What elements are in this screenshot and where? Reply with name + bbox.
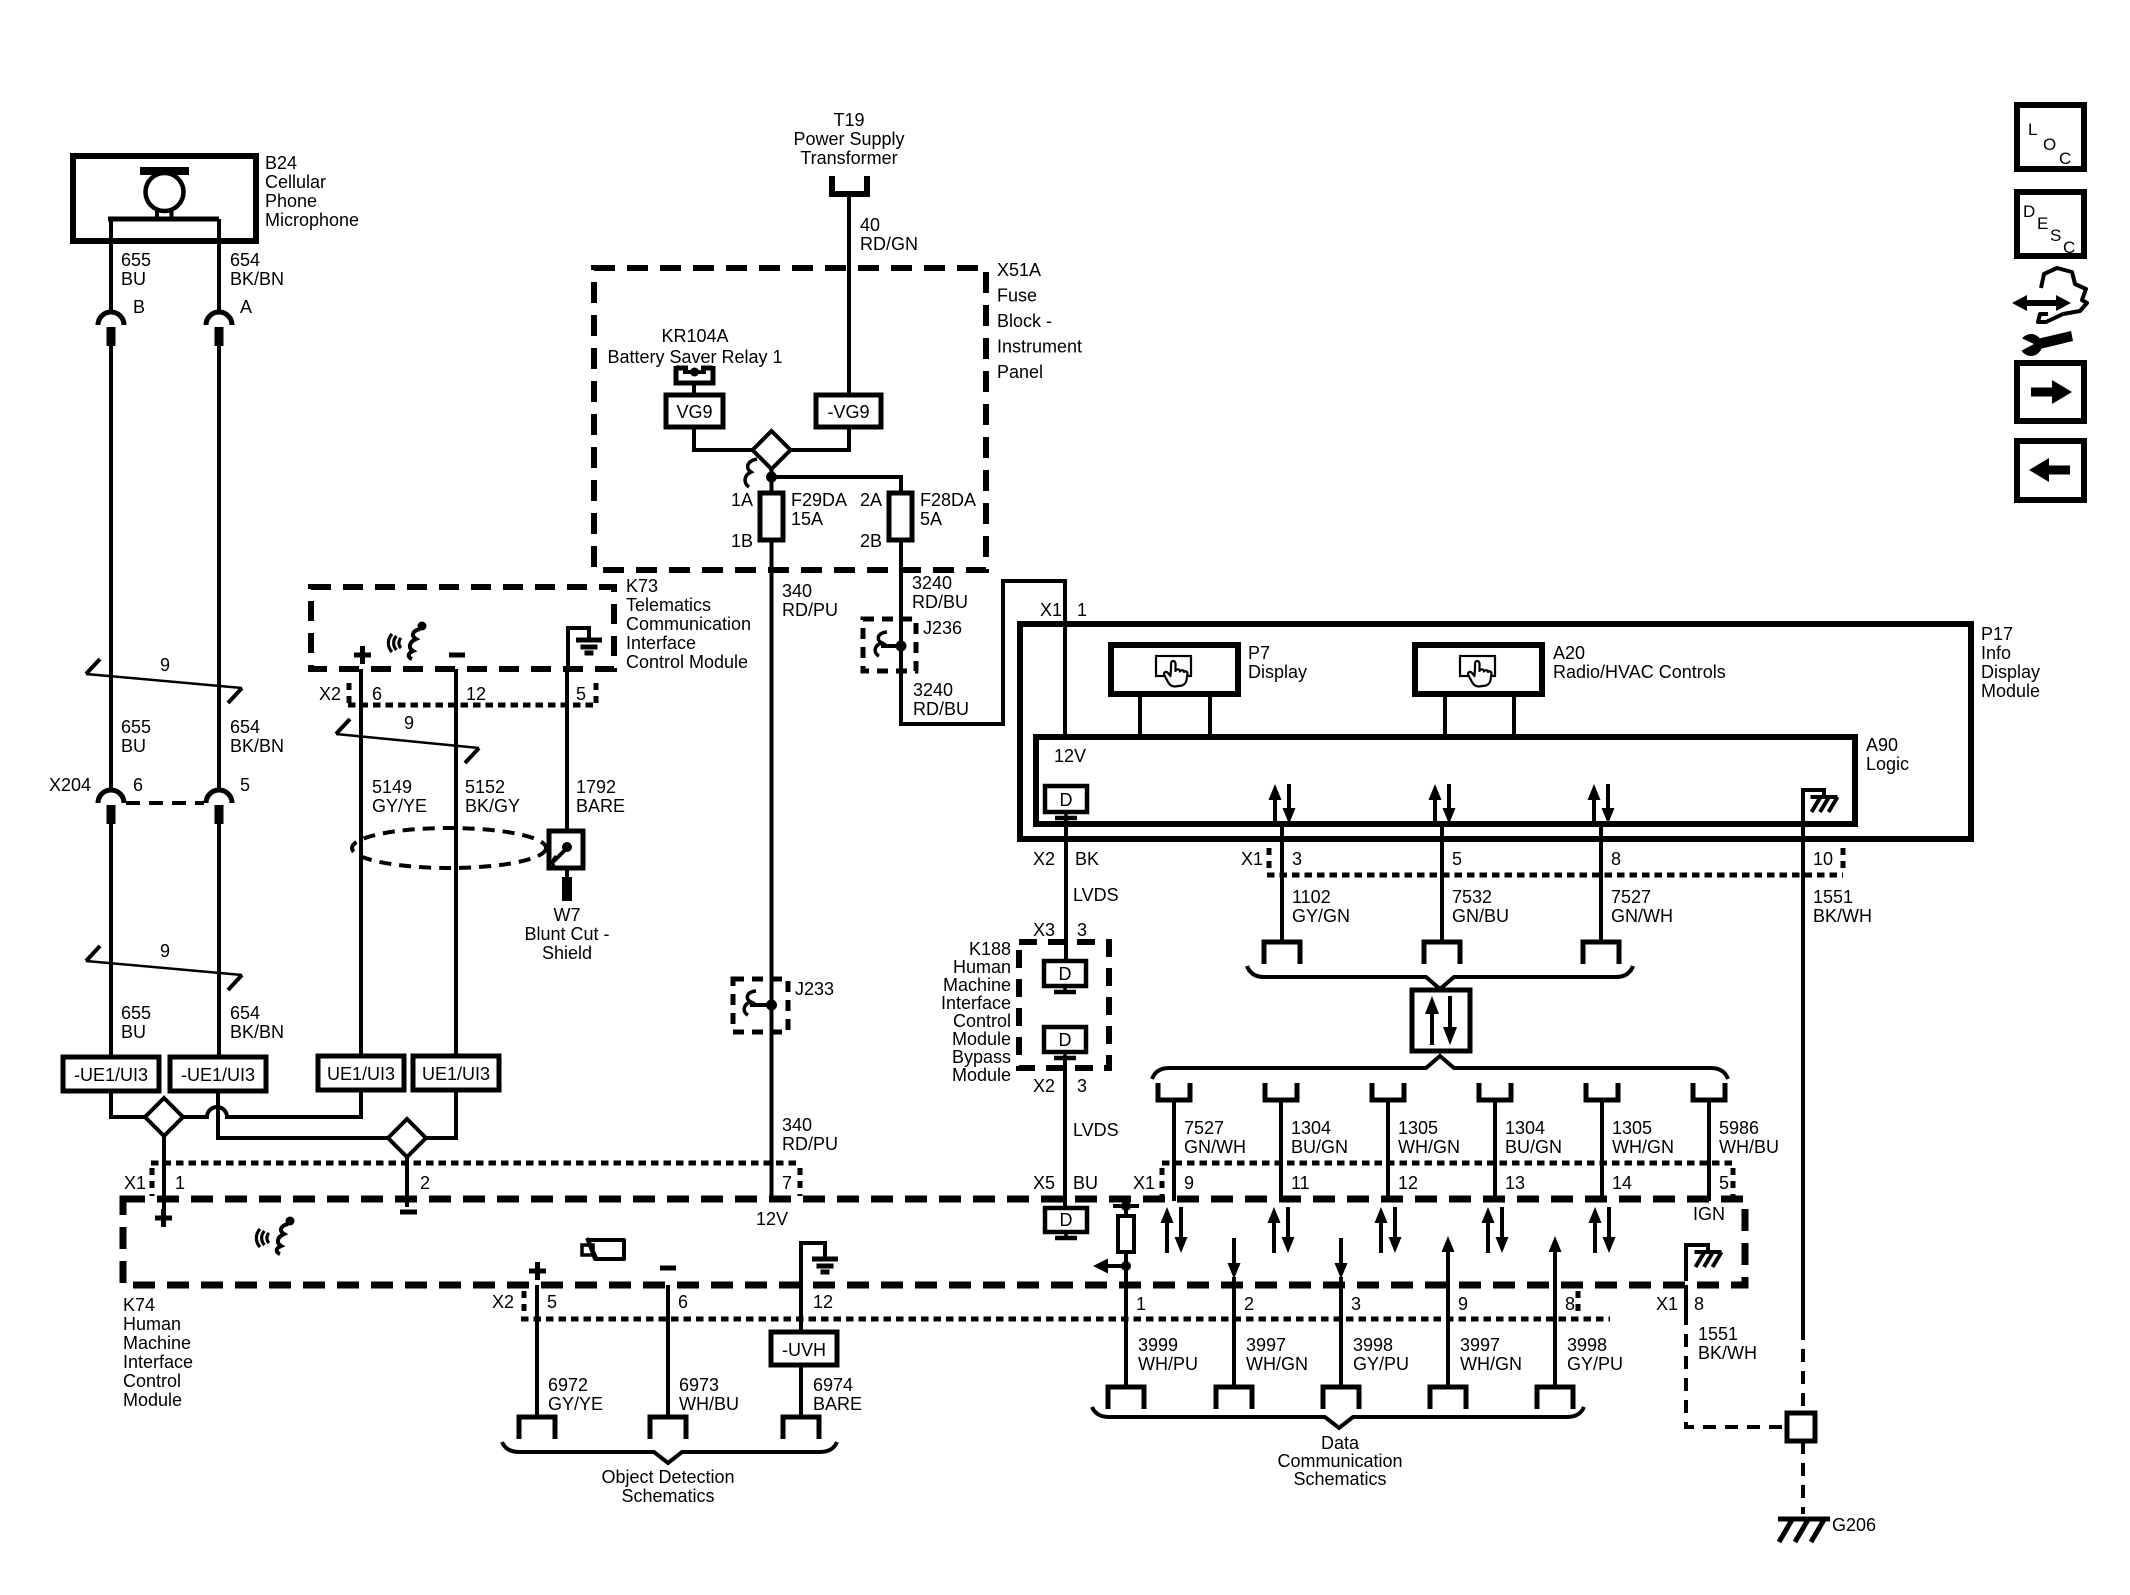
label 7527 GN/WH <box>1611 887 1673 926</box>
splice J236 dashed box <box>863 619 916 671</box>
label Object Detection Schematics <box>601 1467 734 1506</box>
mic icon K74 <box>256 1217 294 1255</box>
svg-text:D: D <box>1060 790 1073 810</box>
splice J233 dashed box <box>733 979 788 1032</box>
svg-text:L: L <box>2028 120 2037 139</box>
label LVDS lower <box>1073 1120 1119 1140</box>
radio A20 box <box>1415 645 1542 694</box>
net box -UE1/UI3 first <box>63 1057 159 1091</box>
arrow pair K74 pin9 <box>1161 1207 1188 1253</box>
connector X1 right pin 11 label <box>1291 1173 1310 1193</box>
icon arrow right box <box>2017 363 2084 421</box>
icon jumper wrench <box>2012 268 2087 356</box>
terminal cup for pin 9 <box>1158 1083 1190 1100</box>
pin 5 label bottom <box>547 1292 557 1312</box>
svg-text:7527: 7527 <box>1611 887 1651 907</box>
wire junction to fuse F28DA <box>772 477 902 493</box>
label W7 Blunt Cut - Shield <box>524 905 609 963</box>
label 1B <box>731 531 753 551</box>
wire relay to VG9 <box>692 383 696 395</box>
twisted pair marker 9 lower <box>86 946 242 990</box>
shield connection box W7 <box>549 831 583 868</box>
svg-text:Object Detection: Object Detection <box>601 1467 734 1487</box>
svg-text:IGN: IGN <box>1693 1204 1725 1224</box>
svg-text:654: 654 <box>230 250 260 270</box>
down arrow to pin 3 <box>1335 1238 1348 1279</box>
svg-text:7527: 7527 <box>1184 1118 1224 1138</box>
svg-text:-UVH: -UVH <box>782 1340 826 1360</box>
svg-text:GY/PU: GY/PU <box>1353 1354 1409 1374</box>
label Data Communication Schematics <box>1277 1433 1402 1489</box>
pin 9 label bottom <box>1458 1294 1468 1314</box>
svg-text:K73: K73 <box>626 576 658 596</box>
plus terminal K74 X1-1 <box>155 1209 172 1227</box>
label 1304 BU/GN pin 13 <box>1505 1118 1562 1157</box>
label K73 Telematics Communication Interface Control Module <box>626 576 751 672</box>
svg-text:11: 11 <box>1291 1173 1310 1193</box>
svg-text:UE1/UI3: UE1/UI3 <box>327 1064 395 1084</box>
svg-text:655: 655 <box>121 717 151 737</box>
relay KR104A contact <box>676 366 713 383</box>
wire 1304 BU/GN to K74 pin 13 <box>1493 1100 1497 1201</box>
svg-text:1102: 1102 <box>1292 887 1331 907</box>
svg-text:BU: BU <box>121 269 146 289</box>
svg-text:Module: Module <box>952 1065 1011 1085</box>
wire diamond right to K74 pin 2 <box>405 1157 409 1207</box>
svg-text:WH/GN: WH/GN <box>1398 1137 1460 1157</box>
wire 654 BK/BN to X204 <box>217 346 221 791</box>
svg-text:655: 655 <box>121 1003 151 1023</box>
svg-text:Control: Control <box>953 1011 1011 1031</box>
pin 5 wire 7532 GN/BU <box>1442 826 1462 942</box>
module P17 box <box>1020 624 1971 839</box>
fuse F28DA <box>889 493 912 540</box>
label 2A <box>860 490 882 510</box>
svg-text:GY/YE: GY/YE <box>372 796 427 816</box>
pin 6 label bottom <box>678 1292 688 1312</box>
arrow pair K74 pin13 <box>1482 1207 1509 1253</box>
ground G206 rake <box>1778 1518 1830 1542</box>
svg-text:3999: 3999 <box>1138 1335 1178 1355</box>
svg-text:T19: T19 <box>833 110 864 130</box>
svg-text:12: 12 <box>466 684 486 704</box>
svg-text:BK/WH: BK/WH <box>1698 1343 1757 1363</box>
module K188 dashed box <box>1019 942 1109 1068</box>
svg-text:340: 340 <box>782 581 812 601</box>
twisted pair marker 9 upper <box>86 659 242 703</box>
wire from second -UE1/UI3 to right diamond <box>218 1091 388 1138</box>
K73 pin 5 label <box>576 684 586 704</box>
pin 1 label <box>175 1173 185 1193</box>
wire 6972 GY/YE <box>535 1285 539 1417</box>
pin 3 label bottom <box>1351 1294 1361 1314</box>
terminal 3999 pin 1 <box>1108 1387 1144 1409</box>
svg-text:12V: 12V <box>1054 746 1086 766</box>
svg-text:Telematics: Telematics <box>626 595 711 615</box>
svg-text:O: O <box>2043 135 2056 154</box>
wire 5149 GY/YE <box>359 669 363 1056</box>
svg-text:GN/WH: GN/WH <box>1184 1137 1246 1157</box>
svg-text:2: 2 <box>420 1173 430 1193</box>
terminal 3997 pin 9 <box>1430 1387 1466 1409</box>
monitor icon K74 <box>1045 1208 1087 1238</box>
svg-text:D: D <box>1059 964 1072 984</box>
ground symbol K74 X2-12 <box>801 1243 838 1285</box>
wire X1-8 solid <box>1684 1285 1688 1312</box>
wire 3997 WH/GN pin 9 <box>1446 1277 1450 1387</box>
label 3240 RD/BU upper <box>912 573 968 612</box>
pin 3 wire 1102 GY/GN <box>1282 826 1302 942</box>
wire LVDS X2 BK <box>1064 818 1068 961</box>
label 7527 GN/WH pin 9 <box>1184 1118 1246 1157</box>
K73 pin 12 label <box>466 684 486 704</box>
label 1102 GY/GN <box>1292 887 1350 926</box>
svg-text:KR104A: KR104A <box>661 326 728 346</box>
svg-text:1305: 1305 <box>1398 1118 1438 1138</box>
svg-text:A20: A20 <box>1553 643 1585 663</box>
svg-text:RD/BU: RD/BU <box>913 699 969 719</box>
plus terminal K74 X2-5 <box>529 1262 546 1280</box>
wire 655 BU to -UE1/UI3 <box>109 824 113 1057</box>
module K74 dashed box <box>123 1199 1745 1285</box>
svg-text:3997: 3997 <box>1246 1335 1286 1355</box>
svg-text:X2: X2 <box>319 684 341 704</box>
minus terminal K74 X2-6 <box>660 1266 676 1271</box>
label X2 BK <box>1033 849 1099 869</box>
svg-text:15A: 15A <box>791 509 823 529</box>
svg-text:BK/BN: BK/BN <box>230 736 284 756</box>
label 654 BK/BN lower <box>230 1003 284 1042</box>
svg-text:X3: X3 <box>1033 920 1055 940</box>
label 340 RD/PU lower <box>782 1115 838 1154</box>
label 6972 GY/YE <box>548 1375 603 1414</box>
wire 340 RD/PU fuse to J233 <box>770 540 774 1005</box>
svg-text:Communication: Communication <box>1277 1451 1402 1471</box>
label P17 Info Display Module <box>1981 624 2040 701</box>
icon arrow left box <box>2017 441 2084 500</box>
label 2B <box>860 531 882 551</box>
splice J236 junction <box>875 632 906 656</box>
camera icon K74 <box>582 1238 624 1259</box>
X204 pin 6 <box>133 775 143 795</box>
svg-text:X2: X2 <box>1033 849 1055 869</box>
svg-text:C: C <box>2063 238 2075 257</box>
svg-text:9: 9 <box>404 713 414 733</box>
wire diamond left to K74 pin 1 <box>162 1136 166 1209</box>
wire 1792 BARE <box>565 669 569 831</box>
ground symbol K73 <box>568 628 602 669</box>
label 6973 WH/BU <box>679 1375 739 1414</box>
terminal 6973 <box>650 1417 686 1439</box>
down arrow to pin 2 <box>1228 1238 1241 1279</box>
wire 3998 GY/PU pin 3 <box>1339 1277 1343 1387</box>
svg-text:B: B <box>133 297 145 317</box>
label 3998 GY/PU pin 8 <box>1567 1335 1623 1374</box>
terminal 6974 <box>783 1417 819 1439</box>
svg-text:D: D <box>1059 1030 1072 1050</box>
svg-text:Machine: Machine <box>123 1333 191 1353</box>
arrow pair A90 third <box>1588 784 1615 824</box>
label X5 BU <box>1033 1173 1098 1193</box>
svg-text:X51A: X51A <box>997 260 1041 280</box>
module K73 dashed box <box>311 587 614 669</box>
label 1792 BARE <box>576 777 625 816</box>
left arrow from resistor <box>1093 1259 1126 1274</box>
net box UE1/UI3 third <box>318 1056 404 1090</box>
net box -UVH <box>771 1332 837 1365</box>
svg-text:P7: P7 <box>1248 643 1270 663</box>
label 3997 WH/GN pin 2 <box>1246 1335 1308 1374</box>
clip mark at fuse junction <box>745 459 757 487</box>
svg-text:5A: 5A <box>920 509 942 529</box>
monitor icon K188 lower <box>1044 1027 1086 1058</box>
svg-text:Schematics: Schematics <box>1293 1469 1386 1489</box>
icon LOC box <box>2017 105 2084 169</box>
label KR104A Battery Saver Relay 1 <box>607 326 782 367</box>
label T19 Power Supply Transformer <box>793 110 904 168</box>
svg-text:X1: X1 <box>1040 600 1062 620</box>
pin 2 label <box>420 1173 430 1193</box>
icon DESC box <box>2017 192 2084 257</box>
svg-text:RD/PU: RD/PU <box>782 600 838 620</box>
up arrow in box <box>1425 996 1439 1045</box>
svg-text:X1: X1 <box>1241 849 1263 869</box>
label X1 pin1 of P17 <box>1040 600 1087 620</box>
svg-text:BU/GN: BU/GN <box>1505 1137 1562 1157</box>
wire 3998 GY/PU pin 8 <box>1553 1277 1557 1387</box>
pin B <box>133 297 145 317</box>
wire 5152 BK/GY <box>454 669 458 1056</box>
svg-text:A: A <box>240 297 252 317</box>
svg-text:6972: 6972 <box>548 1375 588 1395</box>
svg-text:GY/GN: GY/GN <box>1292 906 1350 926</box>
svg-text:9: 9 <box>1184 1173 1194 1193</box>
svg-text:J236: J236 <box>923 618 962 638</box>
inline connector B <box>98 312 124 346</box>
label F29DA 15A <box>791 490 847 529</box>
svg-text:3998: 3998 <box>1567 1335 1607 1355</box>
svg-text:WH/GN: WH/GN <box>1460 1354 1522 1374</box>
svg-text:Control: Control <box>123 1371 181 1391</box>
svg-text:6974: 6974 <box>813 1375 853 1395</box>
tick right of K73 pin 5 <box>594 683 599 705</box>
svg-text:8: 8 <box>1565 1294 1575 1314</box>
wire splice to G206 dashed <box>1801 1441 1805 1514</box>
label 9 lower <box>160 941 170 961</box>
svg-text:G206: G206 <box>1832 1515 1876 1535</box>
svg-text:C: C <box>2059 149 2071 168</box>
svg-text:Transformer: Transformer <box>800 148 897 168</box>
svg-text:Logic: Logic <box>1866 754 1909 774</box>
terminal 6972 <box>519 1417 555 1439</box>
mic icon K73 <box>388 622 426 660</box>
svg-text:1304: 1304 <box>1291 1118 1331 1138</box>
svg-text:1: 1 <box>1077 600 1087 620</box>
svg-text:WH/BU: WH/BU <box>1719 1137 1779 1157</box>
K73 pin 6 label <box>372 684 382 704</box>
wire -VG9 to splice diamond <box>791 427 849 450</box>
label 5986 WH/BU pin 5 <box>1719 1118 1779 1157</box>
svg-text:BU: BU <box>1073 1173 1098 1193</box>
label 5149 GY/YE <box>372 777 427 816</box>
connector X1 right pin 5 label <box>1719 1173 1729 1193</box>
svg-text:9: 9 <box>160 655 170 675</box>
label 655 BU lower <box>121 1003 151 1042</box>
wire X2 pin3 LVDS to X5 <box>1063 1058 1067 1208</box>
wire 1305 WH/GN to K74 pin 14 <box>1600 1100 1604 1201</box>
svg-text:Module: Module <box>123 1390 182 1410</box>
svg-text:E: E <box>2037 214 2048 233</box>
svg-text:1: 1 <box>175 1173 185 1193</box>
svg-text:Info: Info <box>1981 643 2011 663</box>
label X3 pin 3 <box>1033 920 1087 940</box>
svg-text:Block -: Block - <box>997 311 1052 331</box>
svg-text:WH/PU: WH/PU <box>1138 1354 1198 1374</box>
svg-text:X2: X2 <box>492 1292 514 1312</box>
wire 3240 RD/BU fuse to J236 <box>899 540 903 646</box>
svg-text:1792: 1792 <box>576 777 616 797</box>
display P7 box <box>1111 645 1238 694</box>
svg-text:1304: 1304 <box>1505 1118 1545 1138</box>
svg-text:Machine: Machine <box>943 975 1011 995</box>
connector X1 dotted line right <box>1162 1161 1733 1166</box>
tick right of pin 10 <box>1841 848 1846 872</box>
label LVDS upper <box>1073 885 1119 905</box>
arrow pair A90 second <box>1429 784 1456 824</box>
wire 1551 dashed to splice <box>1801 1327 1805 1413</box>
svg-text:654: 654 <box>230 717 260 737</box>
wire 1304 BU/GN to K74 pin 11 <box>1279 1100 1283 1201</box>
label 12V in A90 <box>1054 746 1086 766</box>
arrow pair A90 first <box>1269 784 1296 824</box>
svg-text:Fuse: Fuse <box>997 286 1037 306</box>
svg-text:Communication: Communication <box>626 614 751 634</box>
svg-text:5: 5 <box>547 1292 557 1312</box>
svg-text:X1: X1 <box>124 1173 146 1193</box>
splice diamond left <box>145 1098 183 1136</box>
label X2 pin 3 below K188 <box>1033 1076 1087 1096</box>
minus terminal K74 X1-2 <box>400 1210 417 1215</box>
svg-text:GN/BU: GN/BU <box>1452 906 1509 926</box>
svg-text:BK: BK <box>1075 849 1099 869</box>
wire 7527 GN/WH to K74 pin 9 <box>1172 1100 1176 1201</box>
svg-text:BARE: BARE <box>813 1394 862 1414</box>
svg-text:Power Supply: Power Supply <box>793 129 904 149</box>
svg-text:VG9: VG9 <box>676 402 712 422</box>
inline connector X204-6 <box>98 790 124 824</box>
label 655 BU mid <box>121 717 151 756</box>
up arrow from pin 9 <box>1442 1236 1455 1278</box>
wire 40 RD/GN <box>847 193 851 395</box>
label X1 of P17 and tick <box>1241 848 1269 872</box>
X204 pin 5 <box>240 775 250 795</box>
pin 2 label bottom <box>1244 1294 1254 1314</box>
wire 6974 BARE upper <box>799 1285 803 1332</box>
svg-text:-UE1/UI3: -UE1/UI3 <box>181 1065 255 1085</box>
pin 10 wire 1551 BK/WH <box>1803 824 1833 1327</box>
label J236 <box>923 618 962 638</box>
label 1A <box>731 490 753 510</box>
connector X1 dotted line of P17 <box>1267 873 1843 878</box>
label X1 right and tick <box>1133 1168 1162 1196</box>
svg-text:2: 2 <box>1244 1294 1254 1314</box>
connector X204 label <box>49 775 91 795</box>
svg-text:Phone: Phone <box>265 191 317 211</box>
svg-text:GN/WH: GN/WH <box>1611 906 1673 926</box>
connector X2 dotted line K73 <box>348 703 598 708</box>
svg-text:Interface: Interface <box>941 993 1011 1013</box>
terminal under pin8 <box>1583 942 1619 964</box>
svg-text:Blunt Cut -: Blunt Cut - <box>524 924 609 944</box>
svg-text:GY/YE: GY/YE <box>548 1394 603 1414</box>
termination resistor in K74 <box>1113 1201 1139 1285</box>
fuse block X51A dashed box <box>594 268 986 570</box>
terminal cup for pin 5 <box>1693 1083 1725 1100</box>
inline connector X204-5 <box>206 790 232 824</box>
wire from -UE1/UI3 to diamond <box>111 1091 145 1117</box>
svg-text:2A: 2A <box>860 490 882 510</box>
down arrow in box <box>1443 996 1457 1045</box>
pin 12 label bottom <box>813 1292 833 1312</box>
label F28DA 5A <box>920 490 976 529</box>
svg-text:5986: 5986 <box>1719 1118 1759 1138</box>
svg-text:Module: Module <box>1981 681 2040 701</box>
wire 6974 BARE lower <box>799 1365 803 1417</box>
tick right of pin 8 bottom <box>1576 1291 1581 1315</box>
monitor icon in A90 <box>1045 786 1087 818</box>
label 1551 BK/WH upper <box>1813 887 1872 926</box>
touch icon P7 <box>1156 656 1191 687</box>
terminal 3997 pin 2 <box>1216 1387 1252 1409</box>
svg-text:2B: 2B <box>860 531 882 551</box>
svg-text:BU/GN: BU/GN <box>1291 1137 1348 1157</box>
svg-text:-VG9: -VG9 <box>827 402 869 422</box>
pin 1 label bottom <box>1136 1294 1146 1314</box>
svg-text:12: 12 <box>813 1292 833 1312</box>
label B24 Cellular Phone Microphone <box>265 153 359 230</box>
label G206 <box>1832 1515 1876 1535</box>
microphone B24 box <box>73 156 256 241</box>
svg-text:1B: 1B <box>731 531 753 551</box>
svg-text:BK/WH: BK/WH <box>1813 906 1872 926</box>
svg-text:Control Module: Control Module <box>626 652 748 672</box>
terminal under pin3 <box>1264 942 1300 964</box>
svg-text:Interface: Interface <box>123 1352 193 1372</box>
brace Data Communication <box>1092 1407 1584 1428</box>
label X51A Fuse Block Instrument Panel <box>997 260 1082 382</box>
label 5152 BK/GY <box>465 777 520 816</box>
label P7 Display <box>1248 643 1307 682</box>
arrow pair K74 pin11 <box>1268 1207 1295 1253</box>
svg-text:X2: X2 <box>1033 1076 1055 1096</box>
svg-text:5149: 5149 <box>372 777 412 797</box>
net box VG9 <box>666 395 723 427</box>
svg-text:Radio/HVAC Controls: Radio/HVAC Controls <box>1553 662 1726 682</box>
wire X1-8 dashed to splice <box>1686 1312 1785 1427</box>
svg-text:WH/BU: WH/BU <box>679 1394 739 1414</box>
svg-text:1551: 1551 <box>1698 1324 1738 1344</box>
svg-text:340: 340 <box>782 1115 812 1135</box>
svg-text:9: 9 <box>1458 1294 1468 1314</box>
svg-text:Bypass: Bypass <box>952 1047 1011 1067</box>
svg-text:8: 8 <box>1611 849 1621 869</box>
label 340 RD/PU upper <box>782 581 838 620</box>
svg-text:F29DA: F29DA <box>791 490 847 510</box>
svg-text:W7: W7 <box>554 905 581 925</box>
label 12V inside K74 <box>756 1209 788 1229</box>
svg-text:Interface: Interface <box>626 633 696 653</box>
label 1551 BK/WH bottom <box>1698 1324 1757 1363</box>
